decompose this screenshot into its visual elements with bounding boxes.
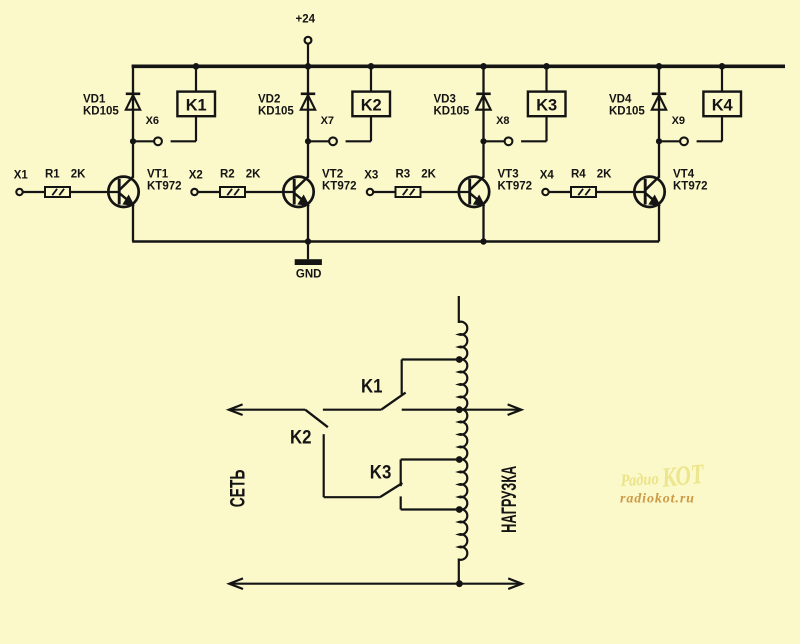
node: contact terminal X7 <box>305 115 337 145</box>
node: rail junction stage 2 <box>305 63 312 70</box>
node: rail junction stage 4 <box>656 63 663 70</box>
svg-text:KD105: KD105 <box>434 106 470 118</box>
wire: emitter of VT1 to ground bus <box>132 204 134 242</box>
node: ground bus junction (VT3) <box>480 238 486 244</box>
svg-text:X8: X8 <box>496 115 509 127</box>
svg-text:GND: GND <box>296 269 322 281</box>
svg-text:2K: 2K <box>421 169 436 181</box>
input terminal X2 <box>189 170 203 196</box>
svg-text:R4: R4 <box>571 169 586 181</box>
wire: relay K2 to contact <box>346 116 371 141</box>
svg-text:+24: +24 <box>296 14 316 26</box>
svg-text:Радио: Радио <box>619 469 659 490</box>
wire: relay K2 coil feed <box>370 66 372 91</box>
wire: collector branch stage 1 <box>132 66 134 141</box>
wire: collector branch stage 3 <box>482 66 484 141</box>
resistor R3 2K <box>396 169 437 197</box>
diode VD3 KD105 <box>434 94 491 118</box>
svg-text:R3: R3 <box>396 169 411 181</box>
node: relay feed junction K4 <box>719 63 726 70</box>
svg-text:KT972: KT972 <box>147 180 182 192</box>
wire: R1 to base of VT1 <box>70 191 119 193</box>
wire: emitter ground bus <box>132 240 659 242</box>
svg-text:radiokot.ru: radiokot.ru <box>620 492 695 507</box>
svg-text:2K: 2K <box>71 169 86 181</box>
relay K1 <box>177 92 215 117</box>
power terminal +24 <box>296 14 316 65</box>
svg-text:VT3: VT3 <box>498 169 519 181</box>
net label: НАГРУЗКА (load) <box>498 466 521 533</box>
wire: X2 to R2 <box>198 191 220 193</box>
wire: autotransformer bottom lead <box>458 559 460 584</box>
svg-text:K4: K4 <box>712 95 734 114</box>
resistor R4 2K <box>571 169 612 197</box>
node: relay feed junction K2 <box>368 63 375 70</box>
wire: tap 4 alternate contact of K3 <box>401 496 459 509</box>
wire: common bottom line with arrows <box>229 578 522 589</box>
svg-text:X6: X6 <box>146 115 159 127</box>
diode VD2 KD105 <box>258 94 315 118</box>
svg-text:KD105: KD105 <box>258 106 294 118</box>
switch contact K3 <box>370 462 403 497</box>
node: winding tap 2 <box>456 406 463 413</box>
svg-text:KD105: KD105 <box>83 106 119 118</box>
svg-text:R2: R2 <box>220 169 235 181</box>
svg-text:X3: X3 <box>364 170 378 182</box>
diode VD4 KD105 <box>609 94 666 118</box>
svg-text:KD105: KD105 <box>609 106 645 118</box>
wire: tap 3 to contact K3 <box>401 460 459 487</box>
svg-text:VD4: VD4 <box>609 94 632 106</box>
svg-text:X1: X1 <box>14 170 29 182</box>
wire: R2 to base of VT2 <box>245 191 294 193</box>
wire: relay K4 to contact <box>697 116 722 141</box>
svg-text:VD1: VD1 <box>83 94 106 106</box>
wire: collector of VT1 <box>132 141 134 177</box>
wire: collector of VT2 <box>307 141 309 177</box>
svg-text:2K: 2K <box>246 169 261 181</box>
svg-text:R1: R1 <box>45 169 60 181</box>
node: relay feed junction K1 <box>193 63 200 70</box>
transistor VT4 KT972 <box>634 169 707 208</box>
svg-text:X7: X7 <box>321 115 334 127</box>
node: winding tap 1 <box>456 356 463 363</box>
wire: emitter of VT3 to ground bus <box>482 204 484 242</box>
svg-text:VT2: VT2 <box>322 169 343 181</box>
wire: tap 1 to contact K1 <box>402 360 459 395</box>
ground GND <box>295 242 322 281</box>
transistor VT1 KT972 <box>108 169 181 208</box>
svg-text:X2: X2 <box>189 170 203 182</box>
wire: relay K3 coil feed <box>545 66 547 91</box>
svg-text:КОТ: КОТ <box>660 459 707 494</box>
wire: mains line (left segment with arrow) <box>229 404 305 415</box>
svg-text:K2: K2 <box>361 95 382 114</box>
resistor R2 2K <box>220 169 261 197</box>
node: contact terminal X8 <box>480 115 512 145</box>
svg-text:НАГРУЗКА: НАГРУЗКА <box>498 466 521 533</box>
switch contact K1 <box>361 376 406 409</box>
wire: mains line (middle segment) <box>323 409 381 411</box>
wire: relay K3 to contact <box>521 116 546 141</box>
svg-text:K1: K1 <box>361 376 383 397</box>
wire: collector of VT4 <box>658 141 660 177</box>
wire: relay K1 coil feed <box>195 66 197 91</box>
wire: emitter of VT4 to ground bus <box>658 204 660 242</box>
wire: X4 to R4 <box>549 191 571 193</box>
svg-text:K2: K2 <box>290 427 312 448</box>
wire: +24 supply rail <box>132 64 785 68</box>
input terminal X4 <box>540 170 555 196</box>
node: winding tap 3 <box>456 456 463 463</box>
wire: collector branch stage 2 <box>307 66 309 141</box>
node: ground bus junction (VT2) <box>305 238 311 244</box>
wire: R4 to base of VT4 <box>596 191 645 193</box>
node: contact terminal X9 <box>656 115 688 145</box>
svg-text:KT972: KT972 <box>498 180 533 192</box>
svg-text:СЕТЬ: СЕТЬ <box>225 470 249 508</box>
svg-text:VT4: VT4 <box>673 169 695 181</box>
svg-text:KT972: KT972 <box>673 180 708 192</box>
wire: autotransformer top lead <box>458 296 460 323</box>
wire: relay K1 to contact <box>171 116 196 141</box>
wire: R3 to base of VT3 <box>421 191 470 193</box>
wire: collector of VT3 <box>482 141 484 177</box>
input terminal X1 <box>14 170 29 196</box>
wire: mains line to tap 2 and load arrow <box>402 404 522 415</box>
node: winding bottom junction <box>456 580 463 587</box>
svg-text:X4: X4 <box>540 170 555 182</box>
svg-text:VD3: VD3 <box>434 94 456 106</box>
svg-text:VT1: VT1 <box>147 169 169 181</box>
relay K2 <box>352 92 390 117</box>
wire: X1 to R1 <box>23 191 45 193</box>
svg-text:2K: 2K <box>597 169 612 181</box>
wire: X3 to R3 <box>373 191 395 193</box>
relay K3 <box>528 92 566 117</box>
transistor VT3 KT972 <box>459 169 532 208</box>
watermark: РадиоКОТ logo <box>619 459 707 507</box>
diode VD1 KD105 <box>83 94 140 118</box>
switch contact K2 <box>290 410 328 449</box>
relay K4 <box>703 92 741 117</box>
resistor R1 2K <box>45 169 86 197</box>
svg-text:VD2: VD2 <box>258 94 280 106</box>
svg-text:K1: K1 <box>186 95 207 114</box>
input terminal X3 <box>364 170 378 196</box>
node: rail junction stage 3 <box>480 63 487 70</box>
net label: СЕТЬ (mains) <box>225 470 249 508</box>
svg-text:X9: X9 <box>672 115 685 127</box>
wire: emitter of VT2 to ground bus <box>307 204 309 242</box>
node: winding tap 4 <box>456 506 463 513</box>
inductor: autotransformer winding T1 <box>459 322 468 560</box>
svg-text:KT972: KT972 <box>322 180 357 192</box>
wire: relay K4 coil feed <box>721 66 723 91</box>
svg-text:K3: K3 <box>536 95 557 114</box>
wire: K2 to K3 pivot <box>324 434 380 497</box>
node: relay feed junction K3 <box>543 63 550 70</box>
svg-text:K3: K3 <box>370 462 392 483</box>
node: contact terminal X6 <box>130 115 162 145</box>
transistor VT2 KT972 <box>283 169 356 208</box>
wire: collector branch stage 4 <box>658 66 660 141</box>
